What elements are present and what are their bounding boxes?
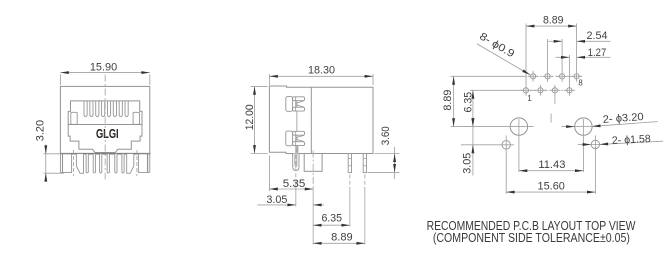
front view: right hidden line bbox=[136, 150, 138, 176]
pcb: right hole vertical center line bbox=[582, 119, 584, 172]
dimension 2.54 bbox=[548, 40, 562, 42]
dimension 8.89 (pcb top) bbox=[526, 25, 577, 27]
pcb: top pin row center line bbox=[451, 75, 521, 77]
dimension 3.60 extension lines bbox=[375, 153, 400, 155]
pcb: right locating hole vertical center line bbox=[594, 136, 596, 194]
dimension 12.00 bbox=[254, 86, 256, 153]
side view: shield leg center line bbox=[295, 149, 297, 185]
svg-text:6.35: 6.35 bbox=[321, 212, 342, 224]
label 8-dia0.9 leader bbox=[477, 44, 530, 75]
svg-text:3.60: 3.60 bbox=[380, 126, 392, 145]
dimension 3.05 (pcb left) bbox=[472, 121, 474, 176]
front view: vertical center line bbox=[104, 75, 106, 183]
svg-text:6.35: 6.35 bbox=[462, 92, 474, 113]
svg-text:(COMPONENT SIDE TOLERANCE±0.05: (COMPONENT SIDE TOLERANCE±0.05) bbox=[433, 231, 630, 245]
svg-text:2.54: 2.54 bbox=[587, 30, 608, 42]
pcb: left mounting hole (dia 3.20) bbox=[510, 118, 527, 135]
svg-text:8.89: 8.89 bbox=[442, 89, 454, 110]
svg-text:12.00: 12.00 bbox=[244, 104, 256, 130]
front view: right latch window bbox=[133, 112, 139, 124]
svg-text:3.05: 3.05 bbox=[266, 194, 287, 206]
pcb: pin hole vertical marks bbox=[525, 24, 527, 96]
dimension 3.20 bbox=[45, 145, 47, 181]
pcb: left locating hole center lines bbox=[461, 144, 514, 146]
svg-text:3.20: 3.20 bbox=[34, 120, 46, 141]
side view: front shield leg (U pin) bbox=[293, 154, 299, 171]
front view: right wide shield leg bbox=[138, 154, 147, 173]
svg-text:2- ϕ3.20: 2- ϕ3.20 bbox=[602, 111, 644, 126]
dimension 6.35 (pcb left) bbox=[472, 90, 474, 126]
svg-text:1.27: 1.27 bbox=[588, 47, 607, 59]
dimension 3.05 (side) bbox=[258, 204, 296, 206]
pcb: bottom pin row center line bbox=[470, 89, 518, 91]
dimension 18.30 extension lines bbox=[268, 74, 270, 85]
svg-text:8.89: 8.89 bbox=[543, 15, 564, 27]
front view: outer shield box bbox=[60, 86, 149, 153]
svg-text:8: 8 bbox=[578, 78, 582, 87]
dimension 12.00 extension lines bbox=[251, 85, 268, 87]
svg-text:15.90: 15.90 bbox=[90, 61, 117, 73]
front view: left hidden line bbox=[73, 150, 75, 176]
side view: contact pin 1 bbox=[348, 154, 351, 173]
dimension 5.35 bbox=[269, 188, 313, 190]
svg-text:5.35: 5.35 bbox=[283, 178, 306, 190]
dimension 18.30 bbox=[269, 75, 373, 77]
front view: six shield pins bbox=[86, 154, 88, 173]
side view: contact wire hidden edge bbox=[296, 99, 298, 153]
side view: peg center line bbox=[312, 151, 314, 187]
front view: left latch window bbox=[71, 112, 77, 124]
svg-text:3.05: 3.05 bbox=[461, 153, 473, 174]
label 2-dia3.20 leader bbox=[575, 126, 593, 128]
side view: plastic mounting peg bbox=[304, 154, 322, 172]
svg-text:11.43: 11.43 bbox=[538, 159, 565, 171]
side view: internal partition line bbox=[310, 87, 312, 153]
pcb: part center mark bbox=[550, 114, 552, 123]
front view: jack cavity outline bbox=[68, 101, 142, 153]
side view: pin 1 center line bbox=[349, 175, 351, 191]
dimension 6.35 (side) bbox=[313, 224, 350, 226]
label 2-dia1.58 leader bbox=[591, 143, 600, 145]
svg-text:GLGI: GLGI bbox=[96, 126, 119, 141]
pcb: left hole vertical center line bbox=[518, 119, 520, 172]
dimension 15.60 bbox=[506, 191, 595, 193]
front view: jack seam line bbox=[68, 124, 142, 126]
svg-text:15.60: 15.60 bbox=[538, 180, 565, 192]
front view: right edge pin bbox=[148, 154, 150, 173]
pcb: 8 pin holes (8-x0.9) bbox=[531, 74, 536, 79]
front view: left wide shield leg bbox=[63, 154, 72, 173]
svg-text:18.30: 18.30 bbox=[308, 65, 335, 77]
svg-text:2- ϕ1.58: 2- ϕ1.58 bbox=[612, 133, 652, 147]
side view: contact pin 2 bbox=[363, 154, 366, 173]
dimension 5.35 extension line bbox=[268, 156, 270, 192]
svg-text:8.89: 8.89 bbox=[331, 232, 353, 244]
side view: upper contact fork bbox=[286, 97, 293, 112]
dimension 11.43 bbox=[519, 170, 584, 172]
side view: pin 2 center line bbox=[364, 175, 366, 191]
dimension 8.89 (pcb left) bbox=[453, 76, 455, 126]
front view: right slant leg bbox=[127, 154, 134, 173]
pcb: left hole horizontal center line bbox=[451, 126, 534, 128]
side view: lower contact fork bbox=[286, 131, 293, 146]
side view: body outline with top flange step and bottom ledge bbox=[269, 86, 373, 154]
pcb: left locating hole (dia 1.58) bbox=[502, 141, 510, 149]
front view: left edge pin bbox=[60, 154, 62, 173]
svg-text:1: 1 bbox=[527, 94, 531, 103]
front view: heavy shield bottom line bbox=[60, 153, 150, 155]
pcb: right locating hole (dia 1.58) bbox=[591, 140, 599, 148]
dimension 15.90 extension lines bbox=[59, 74, 61, 85]
dimension 15.90 bbox=[60, 72, 149, 74]
side view: contact tail lines bbox=[295, 146, 297, 153]
pcb: right mounting hole (dia 3.20) bbox=[575, 118, 592, 135]
dimension 8.89 (side) bbox=[313, 242, 365, 244]
front view: 8 contact slots comb bbox=[84, 101, 87, 117]
dimension 1.27 bbox=[556, 56, 570, 58]
front view: left slant leg bbox=[76, 154, 83, 173]
dimension 3.60 bbox=[394, 147, 396, 179]
dimension 3.20 extension lines bbox=[44, 153, 60, 155]
